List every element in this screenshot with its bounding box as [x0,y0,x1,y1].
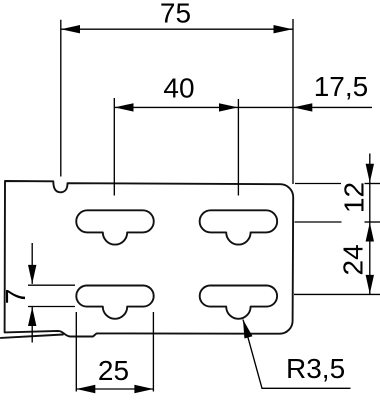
svg-text:75: 75 [160,0,191,28]
svg-text:40: 40 [163,73,194,104]
svg-text:17,5: 17,5 [314,71,369,102]
svg-text:25: 25 [98,355,129,386]
svg-text:24: 24 [338,244,369,275]
svg-text:R3,5: R3,5 [286,353,345,384]
svg-text:12: 12 [339,182,370,213]
svg-text:7: 7 [0,289,31,305]
